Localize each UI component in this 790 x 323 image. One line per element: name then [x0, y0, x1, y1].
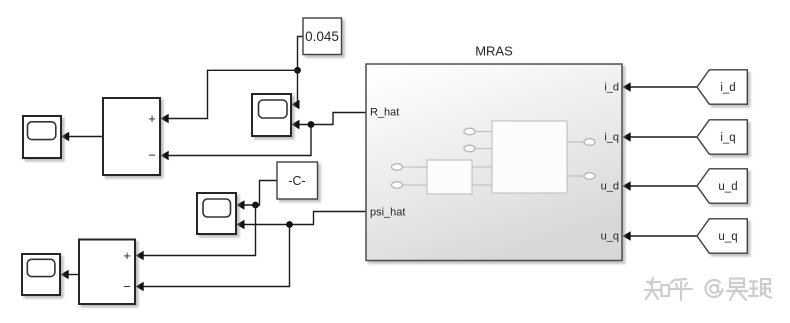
- svg-text:−: −: [123, 279, 131, 294]
- scope Scope0: [23, 116, 61, 158]
- wire R_hat from MRAS: [291, 113, 366, 130]
- MRAS inner preview port ovals: [392, 128, 596, 188]
- wire 0.045 output: [298, 37, 304, 71]
- constant block -C-: [277, 162, 318, 199]
- svg-text:i_d: i_d: [604, 82, 619, 94]
- wire node D to Sum2 minus input: [136, 225, 290, 292]
- junction node A: [294, 67, 301, 74]
- svg-text:u_q: u_q: [718, 231, 737, 243]
- MRAS inner preview small subsystem: [427, 160, 472, 194]
- tag i_d: [697, 70, 747, 104]
- wire node A to Sum1 plus input: [161, 70, 298, 123]
- MRAS inner preview wires: [402, 132, 584, 186]
- svg-text:+: +: [123, 248, 131, 263]
- tag u_q: [697, 219, 747, 253]
- svg-text:-C-: -C-: [288, 174, 305, 188]
- wire psi_hat from MRAS: [236, 212, 366, 230]
- svg-text:u_d: u_d: [718, 181, 737, 193]
- wire tag i_d to MRAS: [623, 82, 698, 91]
- sum block Sum1: [103, 98, 160, 175]
- wire -C- output to Scope2 top input: [236, 181, 277, 210]
- wire node C to Sum2 plus input: [136, 205, 256, 260]
- svg-text:−: −: [148, 148, 156, 163]
- constant block 0.045: [303, 18, 342, 55]
- scope Scope3: [22, 254, 60, 295]
- MRAS inner preview large subsystem: [492, 121, 567, 193]
- svg-text:R_hat: R_hat: [370, 107, 399, 119]
- svg-text:i_d: i_d: [720, 82, 735, 94]
- scope Scope1: [252, 94, 291, 136]
- subsystem MRAS: [366, 64, 622, 261]
- svg-text:i_q: i_q: [604, 132, 619, 144]
- svg-text:+: +: [148, 111, 156, 126]
- junction node B: [308, 121, 315, 128]
- svg-text:i_q: i_q: [720, 132, 735, 144]
- tag i_q: [697, 120, 747, 154]
- svg-text:MRAS: MRAS: [475, 44, 513, 59]
- wire tag u_d to MRAS: [623, 181, 698, 190]
- junction node C: [252, 202, 259, 209]
- wire tag i_q to MRAS: [623, 132, 698, 141]
- wire node B to Sum1 minus input: [161, 125, 312, 161]
- wire Sum1 output to Scope0: [61, 132, 103, 141]
- svg-text:0.045: 0.045: [305, 29, 339, 44]
- svg-text:u_q: u_q: [601, 231, 619, 243]
- svg-text:psi_hat: psi_hat: [370, 207, 405, 219]
- sum block Sum2: [79, 240, 135, 305]
- watermark zhihu: [645, 278, 771, 300]
- wire tag u_q to MRAS: [623, 231, 698, 240]
- wire node A to Scope1 top input: [291, 70, 299, 109]
- svg-text:u_d: u_d: [601, 181, 619, 193]
- junction node D: [286, 221, 293, 228]
- tag u_d: [697, 169, 747, 203]
- scope Scope2: [197, 193, 236, 234]
- wire Sum2 output to Scope3: [61, 270, 80, 279]
